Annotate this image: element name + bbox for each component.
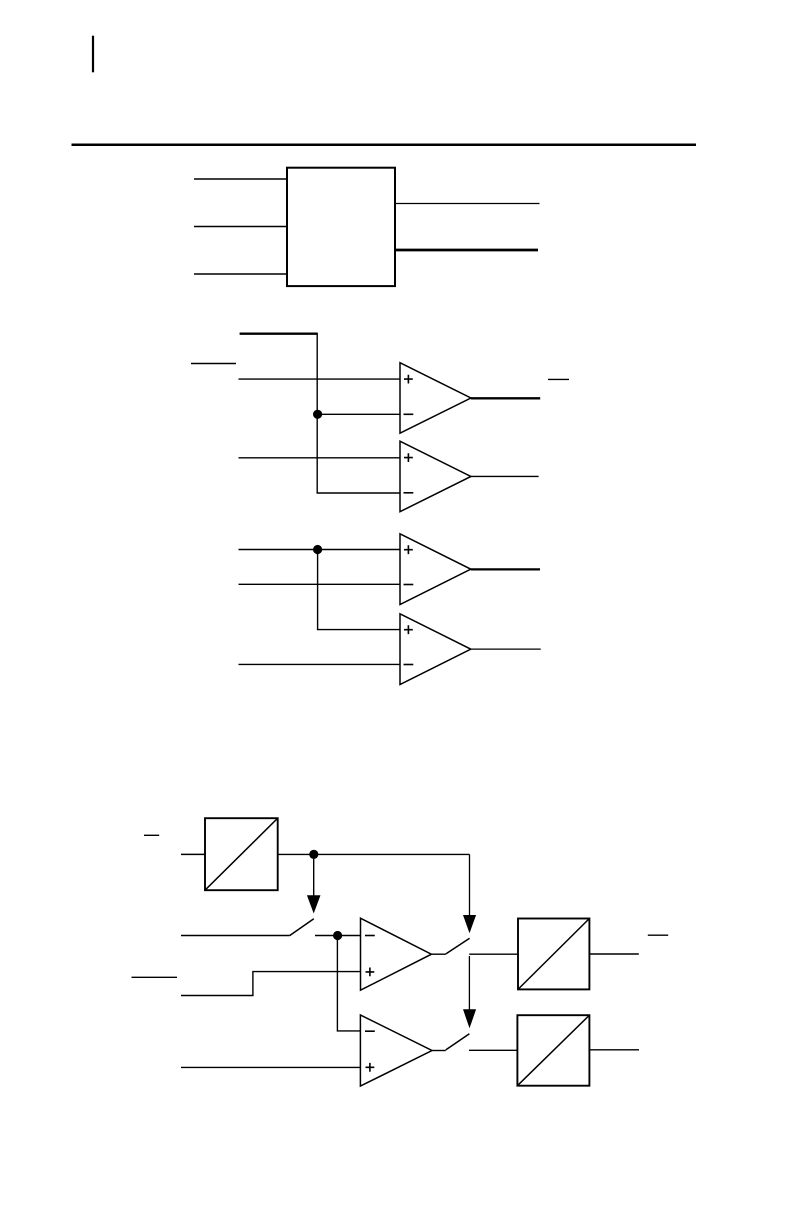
op-amp U7 <box>361 918 432 990</box>
switch S1 blade <box>290 919 314 936</box>
U4 minus label <box>404 584 414 586</box>
U2 minus label <box>404 413 414 415</box>
wire U1 input 1 <box>194 178 287 180</box>
label dash left group 1 <box>191 363 236 365</box>
wire S2 to U8 <box>469 953 518 955</box>
wire step to U7 non-inverting input <box>181 972 361 996</box>
node junction dot A <box>313 410 322 419</box>
label dash right of U8 <box>648 934 668 936</box>
wire dot to U2 inverting input <box>318 413 400 415</box>
wire U4 non-inverting input <box>239 549 401 551</box>
switch S2 blade <box>446 938 470 954</box>
label dash left of U6 <box>144 834 159 836</box>
wire dot D to U9 inverting input <box>337 936 360 1031</box>
U2 plus label <box>404 375 413 384</box>
U4 plus label <box>404 545 413 554</box>
U5 minus label <box>404 664 414 666</box>
wire U2 non-inverting input <box>239 378 401 380</box>
block U1 <box>287 168 395 286</box>
U7 plus label <box>366 968 375 977</box>
U5 plus label <box>404 625 413 634</box>
wire U1 input 2 <box>194 226 287 228</box>
U7 minus label <box>365 935 375 937</box>
wire U1 output bus <box>395 249 538 252</box>
wire U5 output <box>471 648 541 650</box>
revision bar <box>92 36 94 73</box>
U9 plus label <box>366 1063 375 1072</box>
wire S1 to U7 inverting input <box>315 935 361 937</box>
wire vertical to U2 inverting and U3 inverting <box>317 333 400 493</box>
wire U1 input 3 <box>194 273 287 275</box>
wire dot to U5 non-inverting input <box>318 550 400 630</box>
op-amp U9 <box>360 1015 432 1086</box>
wire U3 output <box>471 475 539 477</box>
wire U7 output stub <box>431 953 446 955</box>
converter box U8 <box>518 919 589 990</box>
op-amp U4 <box>400 534 471 605</box>
op-amp U3 <box>400 441 471 512</box>
wire U1 output 1 <box>395 203 540 205</box>
label dash left of U7 <box>132 976 178 978</box>
node junction dot B <box>313 545 322 554</box>
wire U4 output <box>471 568 540 570</box>
arrow to switch S3 <box>463 956 476 1028</box>
wire U3 non-inverting input <box>239 457 401 459</box>
U3 plus label <box>404 453 413 462</box>
wire U8 output <box>589 953 638 955</box>
U9 minus label <box>365 1030 375 1032</box>
wire U9 output stub <box>432 1050 446 1052</box>
switch S1 wire <box>181 935 290 937</box>
wire U4 inverting input <box>239 583 401 585</box>
arrow to switch S1 <box>307 854 321 913</box>
wire U10 output <box>589 1049 639 1051</box>
wire U6 output <box>278 853 470 855</box>
converter box U10 <box>517 1015 589 1085</box>
switch S3 blade <box>446 1034 470 1050</box>
wire U6 input <box>181 853 205 855</box>
op-amp U2 <box>400 363 471 434</box>
wire U2 output <box>471 397 540 399</box>
wire bus into comparator group 1 <box>240 333 318 335</box>
wire S3 to U10 <box>469 1049 517 1051</box>
op-amp U5 <box>400 614 471 685</box>
horizontal rule <box>72 144 697 147</box>
label dash right group 1 <box>548 378 569 380</box>
arrow to switch S2 <box>463 854 476 933</box>
converter box U6 <box>205 818 278 890</box>
U3 minus label <box>404 492 414 494</box>
wire U5 inverting input <box>239 663 401 665</box>
node junction dot D <box>333 931 342 940</box>
node junction dot C <box>309 850 318 859</box>
wire U9 non-inverting input <box>181 1066 360 1068</box>
